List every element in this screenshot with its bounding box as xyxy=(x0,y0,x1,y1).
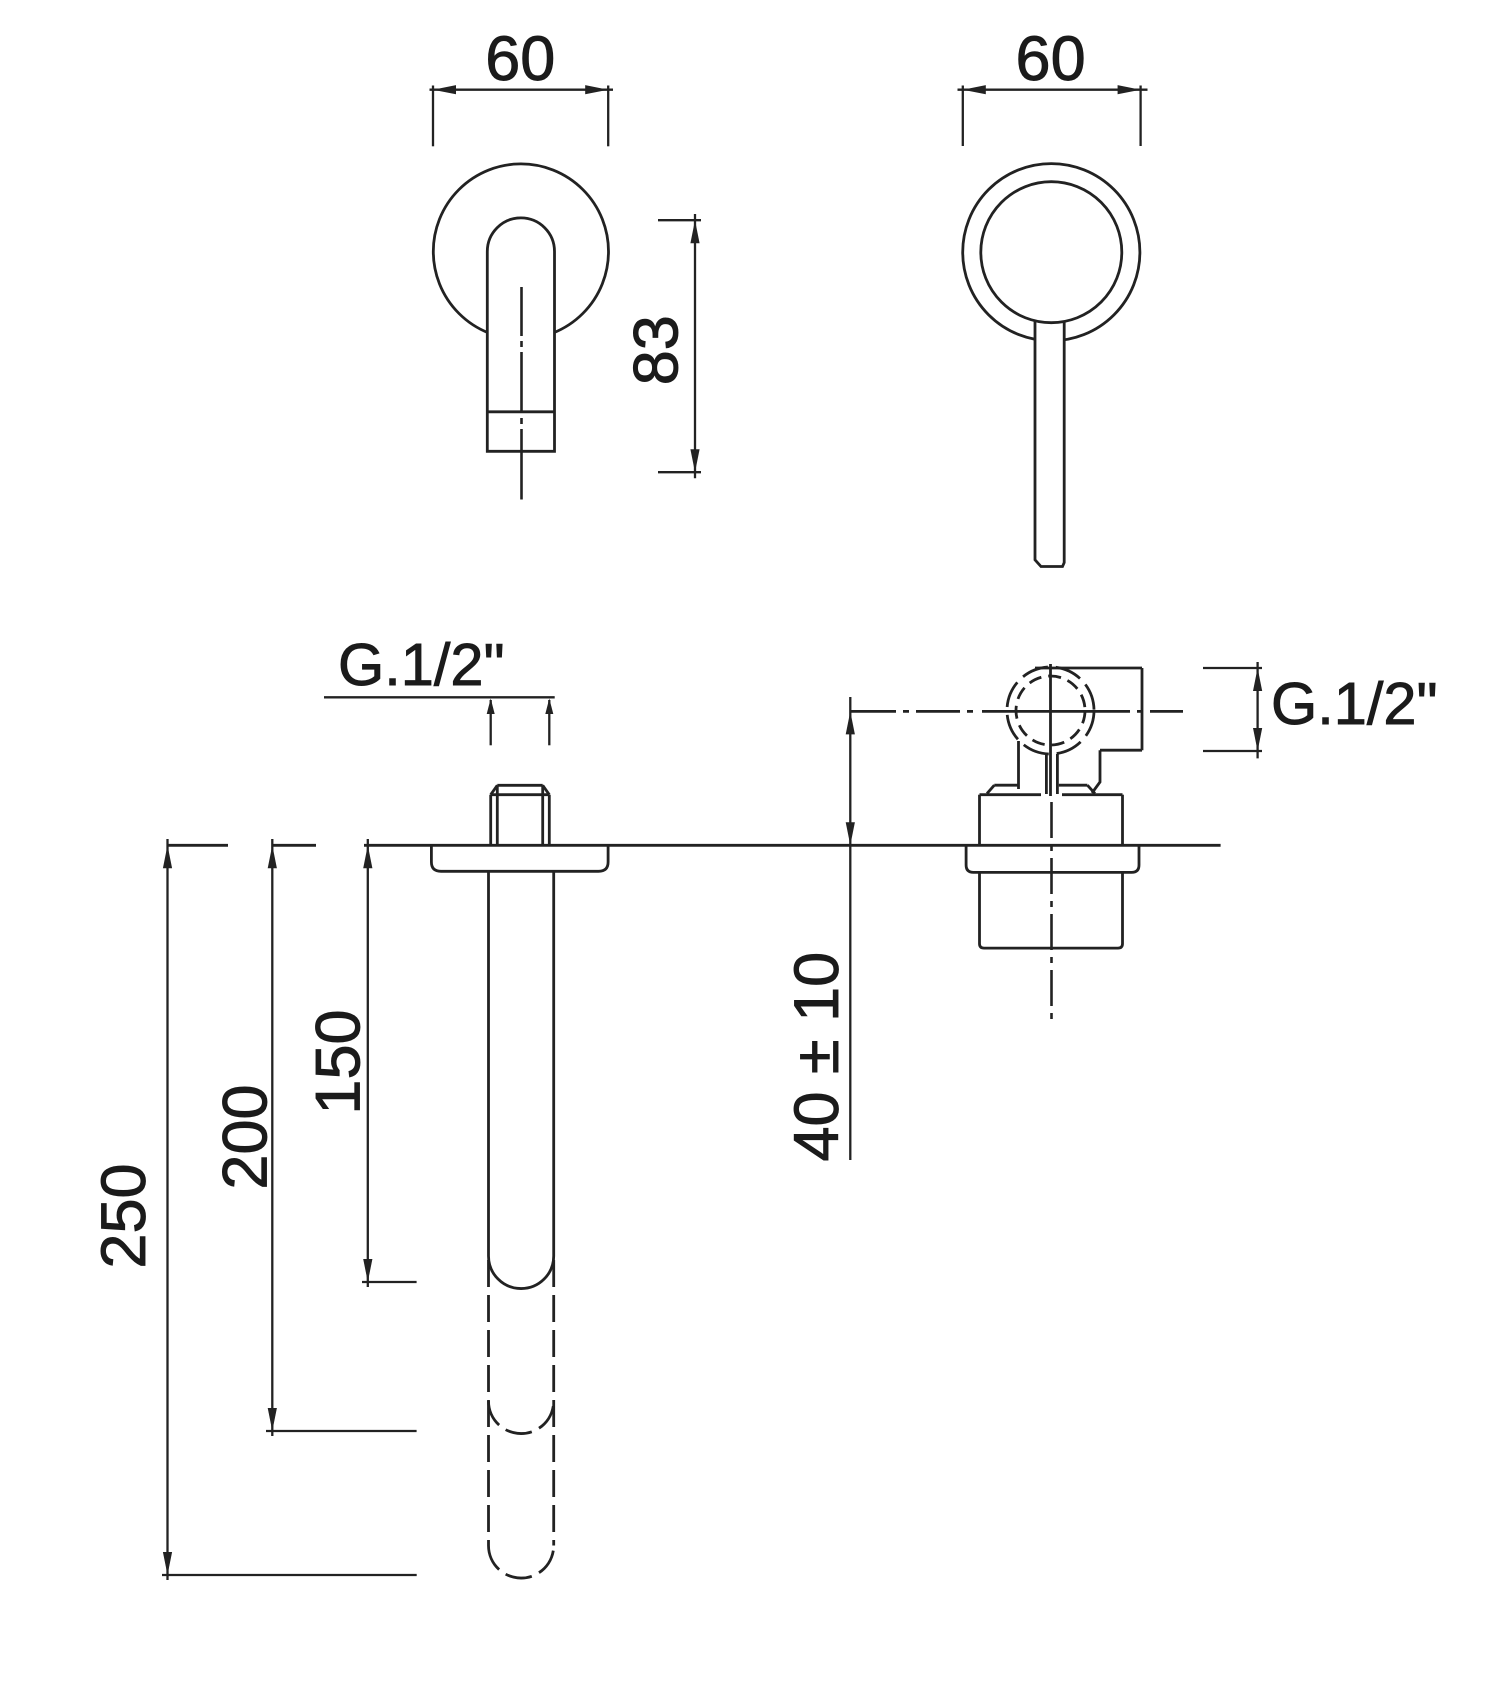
svg-text:G.1/2": G.1/2" xyxy=(1271,670,1438,737)
svg-text:83: 83 xyxy=(622,315,692,385)
svg-text:G.1/2": G.1/2" xyxy=(338,631,505,698)
svg-text:60: 60 xyxy=(1016,24,1086,94)
svg-text:40 ± 10: 40 ± 10 xyxy=(782,952,852,1162)
svg-text:60: 60 xyxy=(485,24,555,94)
svg-text:150: 150 xyxy=(304,1009,374,1114)
svg-text:200: 200 xyxy=(211,1084,281,1189)
svg-text:250: 250 xyxy=(89,1163,159,1268)
